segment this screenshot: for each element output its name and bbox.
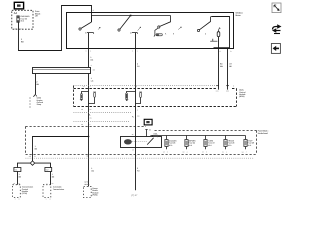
relay K1 xyxy=(121,136,162,148)
wire labels below box xyxy=(90,56,232,68)
svg-text:BN: BN xyxy=(35,148,38,151)
window motor nested box xyxy=(211,17,229,48)
svg-text:A4: A4 xyxy=(14,12,18,15)
bottom pin marks xyxy=(15,199,51,201)
ground G302 xyxy=(33,94,37,97)
wire drop motor xyxy=(218,37,220,90)
svg-text:F: F xyxy=(132,155,133,158)
svg-text:Underhood: Underhood xyxy=(258,132,269,135)
svg-text:4: 4 xyxy=(90,49,91,52)
wire to connectors xyxy=(18,163,31,167)
bus wire inside box xyxy=(92,15,171,17)
dotted line under box xyxy=(26,157,255,159)
wire1 connector labels xyxy=(84,181,90,186)
fuse tap right of wire1 xyxy=(89,92,97,104)
fuse tap left of wire1 xyxy=(80,92,89,101)
svg-text:87: 87 xyxy=(132,148,134,151)
dotted overlay lines xyxy=(74,86,216,122)
svg-text:2: 2 xyxy=(226,151,227,153)
icon swap arrows xyxy=(272,24,282,33)
wire from bar to ground xyxy=(35,74,37,95)
svg-text:C: C xyxy=(220,50,222,53)
wire label 1 LG xyxy=(91,77,94,82)
fuse F3 xyxy=(185,136,188,150)
fuse tap left of wire2 xyxy=(125,92,135,102)
wire drop pin B xyxy=(227,48,229,90)
switch S3 xyxy=(154,16,182,37)
svg-text:E4: E4 xyxy=(202,151,204,153)
icon top-left (info button) xyxy=(14,2,23,9)
svg-text:D2: D2 xyxy=(183,151,185,153)
svg-text:A9: A9 xyxy=(29,155,31,158)
svg-text:LG: LG xyxy=(91,80,94,83)
BCM dashed band xyxy=(74,86,237,107)
svg-text:B: B xyxy=(93,9,94,12)
fuse block dashed box xyxy=(12,10,33,29)
svg-text:1B: 1B xyxy=(90,108,92,111)
svg-text:PU: PU xyxy=(137,169,140,172)
fuse value label xyxy=(20,15,30,22)
svg-text:2: 2 xyxy=(15,199,16,200)
svg-text:B: B xyxy=(34,155,36,158)
svg-text:48: 48 xyxy=(81,123,83,126)
switch S1 xyxy=(79,16,101,34)
switch assembly box xyxy=(67,13,234,49)
BCM label xyxy=(239,89,246,99)
branch wire to TCM xyxy=(33,137,89,162)
main wire 1 down the page xyxy=(88,74,90,187)
svg-text:C22: C22 xyxy=(226,90,229,93)
motor wire terminals at band xyxy=(216,85,229,87)
svg-text:(TCM): (TCM) xyxy=(22,192,27,195)
svg-text:BN: BN xyxy=(36,83,39,86)
icon back arrow xyxy=(271,44,280,54)
svg-text:4: 4 xyxy=(246,151,247,153)
svg-text:8: 8 xyxy=(233,85,234,88)
svg-text:12: 12 xyxy=(20,28,22,31)
svg-text:Motor: Motor xyxy=(236,14,241,17)
svg-text:BN: BN xyxy=(52,176,55,179)
svg-text:F1: F1 xyxy=(222,151,224,153)
svg-text:B3: B3 xyxy=(93,68,95,71)
svg-text:A4: A4 xyxy=(81,108,83,111)
svg-text:WH: WH xyxy=(220,65,224,68)
svg-text:OG: OG xyxy=(91,169,94,172)
underhood fuse block dashed box xyxy=(26,127,257,155)
svg-text:0%: 0% xyxy=(90,117,93,120)
svg-text:B: B xyxy=(19,199,20,200)
svg-text:A: A xyxy=(137,109,138,112)
svg-text:BN: BN xyxy=(19,176,22,179)
svg-text:A: A xyxy=(91,64,93,67)
svg-text:7: 7 xyxy=(136,155,137,158)
PDM dashed box xyxy=(84,187,92,198)
Automatic Transmission dashed box xyxy=(43,185,51,198)
svg-text:10A: 10A xyxy=(137,114,140,117)
relay label xyxy=(154,133,160,138)
connector label box C2 xyxy=(45,168,52,172)
svg-text:6: 6 xyxy=(167,151,168,153)
svg-text:(T) 47: (T) 47 xyxy=(131,194,138,197)
fuse F2 xyxy=(165,136,168,150)
TCM dashed box xyxy=(13,185,21,198)
svg-text:X2: X2 xyxy=(52,182,54,185)
svg-text:PU: PU xyxy=(137,65,140,68)
switch S4 xyxy=(197,17,217,42)
svg-text:C9: C9 xyxy=(86,155,88,158)
svg-text:1: 1 xyxy=(137,49,138,52)
svg-text:2: 2 xyxy=(132,49,133,52)
svg-text:G3: G3 xyxy=(242,151,244,153)
wire label 2 RD xyxy=(21,38,24,43)
svg-text:30: 30 xyxy=(132,133,134,136)
svg-text:A: A xyxy=(50,199,51,200)
fuse F6 xyxy=(244,136,247,150)
wire below C2 xyxy=(50,172,52,185)
svg-text:B: B xyxy=(230,50,231,53)
wire drop S1 xyxy=(88,33,90,68)
svg-text:3: 3 xyxy=(86,49,87,52)
svg-text:RD: RD xyxy=(21,40,24,43)
wire below C1 xyxy=(17,172,19,185)
branch junction on wire1 xyxy=(88,136,90,138)
relay stub wire xyxy=(146,130,148,137)
svg-text:5: 5 xyxy=(206,151,207,153)
fuse F1 xyxy=(17,16,20,22)
motor M1 xyxy=(217,27,220,36)
fuse tap right of wire2 xyxy=(136,92,143,104)
fuse F5 xyxy=(224,136,227,150)
splice pack bar xyxy=(33,68,91,74)
fuse block name label xyxy=(35,10,42,17)
svg-text:1: 1 xyxy=(46,199,47,200)
splice diamond xyxy=(30,161,34,165)
svg-text:3: 3 xyxy=(187,151,188,153)
svg-text:OG: OG xyxy=(90,59,93,62)
icon top-right open-diagram xyxy=(272,3,281,13)
fuse F4 xyxy=(204,136,207,150)
wire feed from fuse around to switch box xyxy=(19,6,92,51)
svg-text:C5: C5 xyxy=(163,151,165,153)
svg-text:(PDM): (PDM) xyxy=(92,194,98,197)
junction dot xyxy=(130,15,132,17)
wire1 mid labels xyxy=(91,167,94,172)
svg-text:A8 OG: A8 OG xyxy=(84,183,90,186)
wire label 2 BN xyxy=(36,80,39,85)
wire2 below relay xyxy=(135,137,137,191)
svg-text:BK: BK xyxy=(149,129,152,132)
label Window Motor xyxy=(236,12,244,17)
icon mid (info button) xyxy=(144,119,152,125)
switch S2 xyxy=(118,16,141,34)
fuse block label xyxy=(258,130,269,136)
dashed stub near ground xyxy=(29,97,31,109)
fuse row bus xyxy=(153,135,246,137)
svg-text:Transmission: Transmission xyxy=(53,188,65,191)
svg-text:C21: C21 xyxy=(216,90,219,93)
svg-text:BK: BK xyxy=(229,65,232,68)
wire drop S2 xyxy=(135,33,137,137)
svg-text:B2: B2 xyxy=(15,28,17,31)
svg-text:(BCM): (BCM) xyxy=(239,95,245,98)
svg-text:6: 6 xyxy=(90,123,91,126)
pin labels above modules xyxy=(13,182,53,185)
connector label box C1 xyxy=(14,168,21,172)
branch labels xyxy=(35,145,38,150)
